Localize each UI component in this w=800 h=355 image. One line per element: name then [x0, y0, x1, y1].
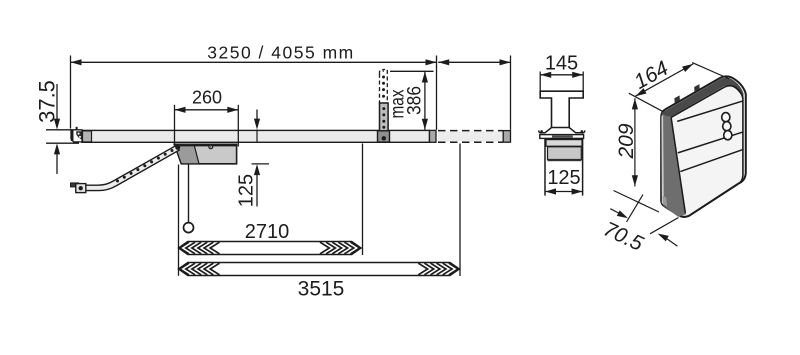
xsec head box sides/ext lines — [544, 138, 546, 195]
head silhouette — [661, 76, 746, 217]
xsec dim 145 extension lines — [539, 72, 541, 97]
carriage top edge — [174, 145, 236, 147]
head divider line 1 — [678, 132, 744, 153]
arm end bracket — [71, 183, 79, 187]
head divider line 2 — [680, 149, 743, 171]
dim 3515 extension line — [459, 144, 461, 277]
wall bracket at rail front end — [71, 130, 82, 142]
head top tabs — [674, 95, 680, 103]
rail tensioner block — [83, 131, 92, 142]
arm holes — [171, 149, 174, 152]
head top face (dark) — [662, 78, 744, 117]
head left face (dark) — [662, 114, 686, 217]
release cord — [188, 165, 190, 223]
release knob — [184, 223, 194, 233]
dim max386 tick — [390, 70, 434, 72]
head front-left boundary — [671, 118, 685, 213]
head front top edge line — [671, 87, 724, 117]
carriage left wedge — [174, 144, 199, 164]
svg-text:125: 125 — [547, 167, 580, 189]
xsec dim 125 line — [545, 191, 583, 193]
hanger dashed upper strap — [380, 70, 388, 104]
door arm — [86, 145, 180, 190]
svg-text:209: 209 — [615, 123, 638, 159]
carriage body — [174, 144, 236, 164]
head divider line 0 — [677, 101, 743, 122]
dim 70.5 extension lines — [627, 195, 644, 223]
xsec dim 145 line — [540, 74, 583, 76]
dim 125 lower arrow — [254, 164, 260, 175]
svg-text:37.5: 37.5 — [35, 80, 60, 123]
dim 3250/4055 extension lines — [70, 56, 72, 129]
dim 125 tick — [252, 163, 270, 165]
dim 37.5 ticks — [46, 129, 71, 131]
head bottom edge — [690, 176, 743, 216]
svg-text:125: 125 — [236, 174, 258, 207]
xsec profile clips — [540, 128, 552, 133]
xsec base plate — [540, 135, 584, 139]
rail dashed extension — [438, 131, 511, 141]
rail (solid section) — [82, 130, 430, 142]
xsec rail T-profile — [540, 91, 583, 127]
arm pivot — [175, 145, 180, 150]
rail end cap (joint) — [430, 130, 437, 142]
dim 2710 extension lines — [178, 165, 180, 276]
dim 164 line — [635, 64, 693, 96]
dim max386 line — [424, 71, 426, 130]
svg-text:145: 145 — [545, 53, 578, 75]
dim 164 extension lines — [629, 93, 663, 111]
hanger solid strap — [380, 103, 389, 131]
dim 3515 band — [179, 263, 460, 276]
svg-text:3515: 3515 — [298, 278, 345, 301]
dim 260 extension lines — [174, 105, 176, 147]
carriage screw — [209, 145, 213, 149]
svg-text:3250 / 4055 mm: 3250 / 4055 mm — [207, 43, 354, 63]
dim 3250/4055 line — [71, 61, 437, 63]
head left edge highlight — [661, 115, 663, 205]
svg-text:386: 386 — [405, 86, 426, 115]
svg-text:260: 260 — [192, 88, 222, 108]
dim 70.5 line + arrows — [610, 209, 619, 214]
dim 209 bottom ext — [614, 191, 660, 213]
head left face notch — [663, 196, 667, 207]
dim 37.5 arrows — [56, 84, 58, 124]
dim 2710 band — [179, 242, 362, 255]
dim line rail extension (unlabeled) — [438, 61, 510, 63]
xsec head top strip — [546, 140, 582, 147]
xsec head block — [548, 147, 582, 160]
head buttons — [722, 113, 730, 122]
hanger foot on rail — [378, 131, 390, 142]
dim 209 line — [634, 98, 636, 186]
dim 260 line — [175, 109, 239, 111]
dim 125 upper arrow — [256, 110, 258, 122]
svg-text:2710: 2710 — [245, 221, 290, 243]
